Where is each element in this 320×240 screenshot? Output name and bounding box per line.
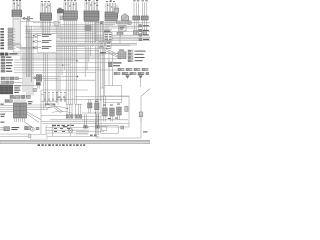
vertical bundle x56-62: [56, 13, 62, 105]
wire y58.8: [20, 58, 121, 60]
ground symbol G1: [125, 72, 131, 78]
tall connector TC2 long pins: [143, 20, 147, 30]
ignition column bottom pins: [14, 43, 20, 47]
wire bus y22.6 short: [33, 22, 60, 24]
tall connector TC1 long pins: [134, 20, 138, 30]
pin group G1 crossbar: [66, 103, 73, 105]
vertical bundle C5 down: [85, 20, 96, 77]
footer text dashes: [38, 144, 86, 145]
connector C6 body: [105, 12, 118, 18]
wire y88 short: [101, 87, 104, 89]
wire y126.5: [88, 126, 101, 128]
wire y70: [14, 69, 121, 71]
connector C3 body: [63, 11, 77, 19]
wires from column bottom: [17, 47, 57, 49]
dark bar under C2: [40, 19, 51, 21]
diagonal wire right: [141, 89, 150, 112]
double connector block right: [21, 103, 27, 118]
vertical stubs C6: [106, 18, 116, 41]
small stub connector left of C3: [54, 22, 59, 26]
right column pin 1: [139, 25, 149, 27]
wire y48.6: [56, 48, 110, 50]
left mid row 5: [1, 68, 11, 70]
bottom item 2: [25, 126, 32, 129]
wire y50.6: [56, 50, 99, 52]
tall connector TC1 feet: [133, 30, 138, 35]
left row 5: [0, 39, 15, 41]
arrow mark right field: [76, 60, 78, 62]
fuse row 2 item 5: [146, 72, 149, 75]
dark bar under C3: [63, 19, 77, 21]
component on wire x141: [139, 112, 143, 123]
diagonal fan from cluster: [25, 112, 42, 128]
right mid connector label: [119, 50, 124, 51]
arrow component right of C1: [22, 17, 34, 20]
hanging pin pair 1: [84, 114, 88, 128]
connector C2 pin labels: [41, 1, 50, 7]
wire bus y33.4: [25, 32, 96, 34]
cluster dark mass: [0, 85, 13, 95]
small block pair B: [106, 41, 111, 48]
vertical wires x43-47 lower: [44, 56, 48, 110]
wire y43.6 dark bus: [56, 43, 137, 45]
tiny box near B2: [121, 126, 124, 129]
small block left of TC1: [128, 21, 131, 25]
left mid row 4: [1, 65, 12, 67]
left edge label above components: [0, 122, 4, 123]
wire y72.5: [14, 72, 96, 74]
footer tab: [31, 135, 47, 140]
B1 connector b: [95, 103, 99, 110]
ignition column under C1: [13, 17, 20, 44]
cluster top row 1: [1, 77, 22, 80]
dark bar under C6: [105, 19, 118, 21]
cluster right labels: [28, 101, 33, 104]
wire bottom y134: [0, 133, 30, 135]
fuse row 2 item 4: [138, 72, 144, 75]
small text right above footer: [143, 131, 148, 132]
wire from column to C2 area: [20, 20, 40, 22]
bottom mid table lines: [46, 125, 89, 136]
vertical bundle from C1: [26, 19, 31, 83]
wire bus y26.2: [25, 25, 150, 27]
wire y134 mid: [76, 133, 88, 135]
tiny box mid-left: [33, 89, 37, 92]
left mid row 3: [1, 62, 12, 64]
hanging pin pair 2: [96, 114, 100, 128]
right box B1 frame: [101, 96, 129, 127]
bottom connector item 1: [0, 127, 9, 131]
cluster pin top ticks: [14, 97, 23, 100]
fuse row 2 item 1: [114, 72, 120, 75]
cluster bundle verticals: [27, 26, 33, 95]
tall connector TC2 top pins: [142, 2, 146, 16]
bottom item 3: [36, 127, 39, 130]
left row 1: [0, 28, 15, 30]
wire y57: [20, 56, 100, 58]
left row 2: [0, 31, 15, 33]
annotation curve arrow: [46, 107, 68, 109]
B1 connector c: [103, 97, 108, 122]
tiny block below label box: [117, 32, 123, 35]
wire y85.5 left: [13, 85, 41, 87]
dark bar under C5: [84, 20, 99, 22]
junction block on bus: [85, 26, 91, 31]
left dark header block: [0, 53, 17, 56]
wire y99.4: [56, 99, 122, 100]
upper right box frame: [104, 86, 122, 103]
right column pin 4: [139, 38, 149, 40]
wire bus y40.2: [95, 39, 150, 41]
wire bus y37.2: [25, 36, 150, 38]
fuse row 1 item 1: [118, 68, 124, 71]
right list row 4: [128, 60, 143, 62]
wire bus y35.2: [57, 34, 146, 36]
pentagon box stub: [119, 32, 121, 37]
wire bus y29.8: [25, 29, 112, 31]
fuse row 2 item 3: [130, 72, 136, 75]
dark label bar above table: [52, 125, 74, 126]
tall connector TC1 label: [133, 0, 139, 2]
left mid row 6: [1, 70, 12, 72]
small junction component between C2 and C3: [57, 8, 63, 13]
diagonal wires to right mid connector: [105, 49, 118, 58]
wire y113: [82, 112, 103, 113]
bus shade band: [56, 43, 137, 46]
left row 6: [0, 42, 15, 44]
connector C5 pins: [85, 0, 98, 11]
pin group G1 pins: [67, 104, 72, 114]
arrow mark mid: [62, 64, 64, 66]
wire y65: [14, 64, 70, 66]
vertical bundle left cluster feed: [23, 47, 25, 92]
ring connector on components row: [31, 127, 35, 131]
right mid text block: [108, 62, 121, 67]
wire bus y24.4: [60, 23, 115, 25]
bottom small ticks in table: [54, 128, 70, 132]
wire pair y53.5/55: [9, 54, 121, 56]
footer band: [0, 141, 150, 144]
contact pins feet: [44, 99, 66, 101]
wire y116.5: [75, 116, 101, 118]
wire y115.5: [41, 115, 80, 117]
wire y77 junction: [62, 76, 78, 78]
extra left rows above header: [0, 44, 15, 46]
double connector block left: [14, 103, 20, 118]
connector C2 pins: [41, 3, 51, 13]
cluster side labels: [14, 85, 21, 93]
vertical bundle x100-104: [101, 23, 104, 101]
wire y121.6: [41, 121, 99, 123]
left mid row 1: [1, 56, 11, 58]
ground symbol G2: [138, 72, 144, 87]
cluster bottom row: [10, 95, 30, 98]
small component above cluster: [5, 100, 12, 103]
legend row 3: [33, 46, 52, 49]
left bus labels: [0, 104, 5, 117]
vertical bundle C3 down: [64, 19, 76, 104]
connector C1 body: [12, 10, 22, 17]
connector C1 pin labels: [13, 0, 21, 5]
cluster top row 2: [1, 81, 22, 84]
wire y123.4: [42, 123, 129, 124]
small block pair A: [99, 42, 104, 48]
TT wires right: [42, 77, 62, 79]
pin group G2 pins: [76, 104, 81, 114]
B1 connector e: [117, 107, 122, 120]
right mid connector block: [118, 52, 126, 59]
wire y67.5: [14, 67, 100, 69]
connector C6 pin labels: [106, 0, 115, 7]
fuse row 2 item 2: [122, 72, 128, 75]
right box upper edge verticals: [105, 49, 113, 96]
tall box bottom marks: [90, 135, 97, 136]
wire bus y23: [95, 22, 150, 24]
annotation text center: [45, 104, 55, 105]
right column pin 2: [139, 29, 149, 31]
wire y46.6 dark bus: [56, 46, 85, 48]
tall connector TC2 label: [142, 0, 148, 2]
right box B2 frame: [101, 126, 118, 134]
left row 4: [0, 36, 15, 38]
right column pin 3: [139, 34, 149, 36]
lamp symbol: [63, 123, 73, 136]
B1 connector a: [88, 99, 92, 113]
B1 small component f: [125, 106, 128, 111]
cluster pins below: [15, 118, 25, 122]
B1 connector d: [110, 108, 115, 122]
connector C3 pin labels: [64, 0, 76, 6]
wire y45.2 dark bus: [56, 44, 130, 46]
vertical stubs C2: [41, 19, 51, 56]
connector C5 pin labels: [85, 0, 98, 6]
wire y80: [44, 79, 95, 81]
tall connector TC2 body: [141, 16, 148, 20]
legend row 1: [33, 34, 52, 37]
tall connector TC2 feet: [142, 30, 147, 35]
connector C1 pins: [13, 2, 21, 10]
fuse row 1 item 4: [142, 68, 148, 71]
footer hairline: [0, 139, 150, 141]
wire bus y31.6: [25, 31, 150, 33]
legend box frame: [38, 34, 57, 53]
C5 side labels: [100, 21, 104, 24]
tall connector TC1 body: [133, 16, 140, 20]
wires right of cluster: [27, 105, 57, 109]
wire y62.5: [14, 62, 121, 64]
mid-right connector table label: [104, 31, 110, 32]
connector C3 pins: [64, 2, 77, 11]
tiny box on line left of tab: [28, 135, 31, 138]
wire y101.2: [41, 100, 58, 102]
wire y119.8: [50, 119, 128, 120]
bar under pentagon: [117, 21, 130, 24]
wire bus y28: [33, 27, 136, 29]
connector C5 body: [84, 11, 99, 20]
left bus lines into cluster: [0, 106, 14, 112]
table stub wires down: [105, 35, 120, 43]
bottom center box frame: [41, 90, 88, 136]
wire y96.5: [75, 96, 129, 98]
vertical long right bundle: [95, 20, 98, 135]
left mid row 2: [1, 59, 13, 61]
tall connector TC1 top pins: [134, 2, 138, 16]
junction labels on y99 wires: [58, 97, 66, 98]
small box right of rows: [13, 45, 21, 52]
pin group G1 feet: [66, 115, 73, 119]
pin group G2 feet: [75, 115, 82, 119]
contact pins row: [45, 94, 65, 100]
right list row 1: [128, 50, 146, 52]
annotation curve arrow 2: [52, 111, 72, 113]
pentagon connector P1: [121, 14, 128, 21]
pin group G2 crossbar: [75, 103, 82, 105]
mid-right connector table: [104, 33, 113, 41]
bottom label text: [11, 127, 19, 130]
contact pins top ticks: [44, 91, 65, 94]
label box under pentagon: [119, 26, 127, 32]
wire bus y38.8: [60, 38, 150, 40]
wire y60: [14, 59, 78, 61]
wire y94.2 short: [41, 93, 44, 95]
wire y41.2: [56, 40, 96, 42]
diagonal bundle center: [50, 103, 63, 113]
fuse row 1 item 2: [126, 68, 132, 71]
legend row 2: [33, 40, 52, 43]
label on right mid wires: [100, 52, 106, 53]
outer box bottom-right: [96, 114, 141, 138]
left row 3: [0, 34, 15, 36]
right list row 3: [128, 56, 145, 58]
TT connector pair: [34, 75, 42, 82]
connector C6 pins: [106, 3, 117, 12]
fuse row 1 item 3: [134, 68, 140, 71]
small block below C6 left: [114, 8, 119, 13]
connector C2 body: [40, 13, 51, 19]
cluster pins above: [15, 99, 25, 103]
TT lower connector: [36, 82, 41, 88]
B1 labels: [95, 101, 120, 119]
small block left of C3: [60, 16, 63, 20]
right list row 2: [128, 53, 144, 55]
wire y131.5: [76, 131, 104, 133]
wire bottom bus y136.4: [0, 135, 99, 137]
